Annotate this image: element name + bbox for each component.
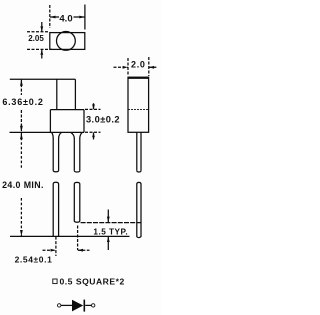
arrowhead 2.05 lower	[40, 50, 43, 55]
front right lead flare right	[80, 132, 83, 138]
extension line right of 4.0 dim	[84, 5, 86, 30]
front right lead upper segment right line	[79, 138, 81, 171]
extension line top of 2.05 dim	[27, 31, 50, 33]
side view lead lower segment	[137, 182, 141, 237]
dimension 2.0 left segment	[114, 66, 128, 68]
svg-text:0.5 SQUARE*2: 0.5 SQUARE*2	[60, 277, 125, 287]
dimension 2.54 right segment	[78, 249, 90, 251]
front left lead upper segment right line	[58, 138, 60, 171]
diode symbol cathode lead	[85, 304, 91, 306]
arrowhead 3.0 up	[92, 132, 95, 137]
top view body outline	[50, 33, 85, 50]
front view body right edge	[83, 110, 85, 133]
svg-text:6.36±0.2: 6.36±0.2	[2, 97, 43, 107]
svg-text:1.5 TYP.: 1.5 TYP.	[93, 228, 128, 237]
front left lead upper segment bottom cap	[53, 171, 58, 172]
dimension 24.0 line upper segment	[20, 133, 22, 168]
dimension 3.0 top extension line	[85, 108, 101, 110]
right lead centre extension line	[77, 226, 79, 251]
dimension 6.36 line lower segment	[20, 110, 22, 132]
extension line left of 4.0 dim	[49, 5, 51, 28]
dimension 2.54 left segment	[43, 249, 56, 251]
front left lead lower segment	[53, 182, 58, 236]
side view body outline	[128, 77, 149, 132]
front right lead end extension line	[81, 222, 143, 224]
diode symbol left terminal circle	[58, 304, 61, 307]
dimension 6.36 line upper segment	[20, 80, 22, 95]
arrowhead 2.0 left-pointing	[149, 66, 154, 69]
front left lead flare left	[52, 132, 54, 138]
side view top face thick edge	[128, 77, 149, 79]
left lead centre extension line	[55, 237, 57, 256]
front view lens tower right edge	[74, 79, 76, 109]
lead cross-section square symbol	[53, 279, 57, 284]
extension line bottom of 2.05 dim	[27, 48, 52, 50]
arrowhead 24.0 up	[20, 133, 23, 139]
dimension line 2.05 lower segment	[41, 50, 43, 59]
diode symbol triangle	[72, 300, 83, 312]
front right lead flare left	[71, 132, 75, 138]
front view body bottom edge / left extension line	[10, 131, 85, 133]
dimension line 2.05 upper segment	[41, 22, 43, 32]
side view extension line right	[148, 57, 150, 76]
arrowhead 2.0 right-pointing	[123, 66, 128, 69]
svg-text:3.0±0.2: 3.0±0.2	[86, 115, 120, 125]
svg-text:2.54±0.1: 2.54±0.1	[15, 255, 53, 265]
dimension 3.0 upper segment	[93, 103, 95, 109]
front right lead upper segment left line	[73, 138, 75, 171]
arrowhead 1.5 down	[107, 217, 110, 222]
front left lead upper segment left line	[52, 138, 54, 171]
dimension 2.0 right segment	[149, 66, 158, 68]
front view lens tower left edge	[56, 79, 58, 109]
dimension 3.0 bottom extension line	[85, 131, 101, 133]
arrowhead 4.0 right	[79, 16, 85, 19]
arrowhead 24.0 down	[20, 230, 23, 236]
front left lead flare right	[59, 132, 62, 138]
arrowhead 1.5 up	[107, 237, 110, 242]
svg-text:4.0: 4.0	[59, 14, 72, 25]
dimension 24.0 line lower segment	[20, 198, 22, 236]
svg-text:24.0 MIN.: 24.0 MIN.	[2, 180, 44, 190]
dimension line 4.0 left segment	[50, 16, 59, 18]
front right lead lower segment	[74, 182, 80, 222]
arrowhead 2.05 upper	[40, 26, 43, 31]
dimension line 4.0 right segment	[74, 16, 85, 18]
arrowhead 6.36 up	[20, 80, 23, 86]
front view body left edge	[49, 110, 51, 133]
side view body split line	[128, 109, 149, 111]
arrowhead 4.0 left	[50, 16, 56, 19]
front view body top edge	[50, 109, 84, 111]
diode symbol cathode bar	[83, 300, 85, 312]
arrowhead 6.36 down	[20, 126, 23, 132]
diode symbol anode lead	[61, 304, 72, 306]
front right lead upper segment bottom cap	[74, 171, 80, 172]
arrowhead 2.54 left-pointing	[78, 249, 83, 252]
side view lead upper segment bottom cap	[137, 171, 141, 172]
diode symbol right terminal circle	[92, 304, 95, 307]
lead end extension line bottom (24.0 / 1.5 reference)	[10, 235, 130, 237]
dimension 3.0 lower segment	[93, 132, 95, 139]
svg-text:2.0: 2.0	[131, 60, 146, 70]
dimension 1.5 lower segment	[107, 237, 109, 250]
top view lens circle	[57, 32, 76, 51]
svg-text:2.05: 2.05	[28, 34, 44, 43]
arrowhead 2.54 right-pointing	[51, 249, 56, 252]
side view lead upper segment right line	[140, 132, 142, 170]
arrowhead 3.0 down	[92, 104, 95, 109]
side view lead upper segment left line	[136, 132, 138, 170]
dimension 1.5 upper segment	[107, 210, 109, 223]
front view lens tower top / 6.36 top extension line	[10, 78, 76, 80]
side view extension line left	[127, 58, 129, 76]
